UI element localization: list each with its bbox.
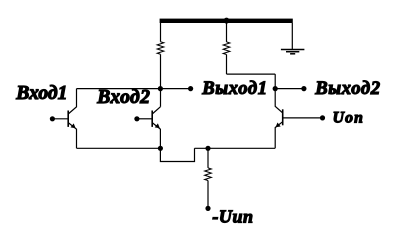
Q3 emitter [275,122,283,149]
svg-text:-Uип: -Uип [212,207,253,227]
Q1 collector [68,89,76,114]
wire: R3 to -Uip terminal [207,181,209,209]
Q3 emitter arrow [276,123,281,128]
wire: emitter bus left segment [77,147,161,149]
wire: tail node to resistor R3 [207,148,209,168]
svg-text:Вход2: Вход2 [96,87,150,108]
Q2 collector [152,107,160,114]
terminal dot: Input1 [50,116,55,121]
junction: node Output1 [158,86,163,91]
resistor R3 [205,168,212,181]
svg-text:Выход1: Выход1 [201,78,267,99]
Q2 emitter [152,123,160,149]
terminal dot: Output2 [301,86,306,91]
wire: R1 down through node Output1 to Q2 collector [160,54,162,107]
wire: rail to resistor R2 [226,23,228,42]
junction: node Output2 [273,86,278,91]
terminal dot: Output1 [188,86,193,91]
ground [281,50,305,54]
Q1 emitter [68,123,76,149]
Q3 collector [275,89,283,113]
Q3 base wire [283,117,323,119]
Q1 base wire [52,118,68,120]
wire: node Output1 horizontal (Q1 collector to terminal) [77,88,191,90]
wire: R2 down [226,55,228,75]
power rail (thick top bar / ground bus) [160,19,293,23]
terminal dot: Uop [320,115,325,120]
junction: tail node [205,146,210,151]
wire: R2 bottom to node Output2 (horizontal) [227,73,276,75]
transistor Q3 (mirrored) [275,89,322,149]
Q3 base bar [282,109,284,125]
Q1 base bar [67,111,69,127]
terminal dot: -Uip [205,206,210,211]
svg-text:Вход1: Вход1 [15,83,67,104]
wire: rail to resistor R1 [160,23,162,42]
wire: rail right end down to ground [291,23,293,49]
svg-text:Выход2: Выход2 [314,78,380,99]
wire: node Output2 to terminal [275,88,304,90]
Q2 base wire [137,118,152,120]
transistor Q2 [137,107,161,149]
junction: emitter bus at Q2 emitter [158,146,163,151]
svg-text:Uоп: Uоп [333,110,365,127]
transistor Q1 [52,89,76,149]
wire: jog down segment [160,148,194,161]
wire: emitter bus right segment [195,147,276,149]
resistor R2 [223,42,230,55]
terminal dot: Input2 [134,116,139,121]
Q2 emitter arrow [155,123,160,128]
resistor R1 [157,42,164,55]
junction on rail (node to R2) [224,18,230,24]
Q2 base bar [151,111,153,127]
Q1 emitter arrow [71,123,76,128]
wire: down into node Output2 [274,74,276,89]
